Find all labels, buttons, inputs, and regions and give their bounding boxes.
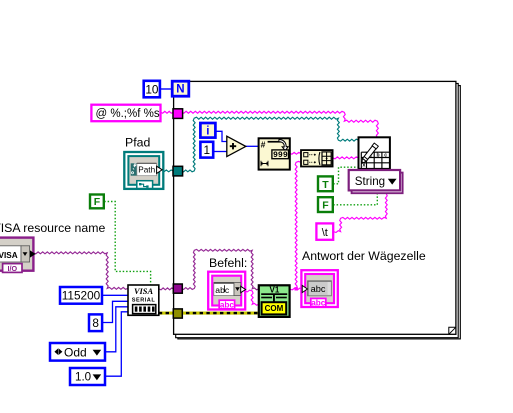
svg-text:VISA: VISA [0,251,18,260]
tunnel string format (magenta) [173,109,183,119]
subVI COM yellow box [262,302,287,314]
wire subVI response to indicator (pink) [290,288,303,290]
string constant tab box [316,223,333,239]
svg-text:Pfad: Pfad [125,135,150,149]
wire constant 1 to add [214,151,227,153]
svg-text:VISA resource name: VISA resource name [0,221,105,235]
wire Odd to config node (blue) [105,307,127,352]
svg-text:abc: abc [311,299,326,308]
write-spreadsheet node table [361,152,389,168]
write-spreadsheet node pencil [360,143,379,165]
string indicator Antwort outer frame [301,270,337,307]
wire 115200 to config node (blue) [102,294,127,296]
svg-text:Path: Path [138,166,155,175]
for-loop folded corner [449,327,456,334]
tunnel VISA resource (purple) [173,284,182,293]
path control type tag [137,181,153,189]
build-array node element row 1 [304,153,308,157]
wire format string constant to tunnel (pink) [161,111,174,113]
svg-text:i: i [206,126,209,138]
number-format node curved arrow [279,139,288,150]
VISA configure serial port node box [128,285,159,315]
ring constant Odd box [50,343,105,361]
boolean constant F outside [90,195,104,209]
svg-text:999: 999 [273,151,288,160]
wire VISA config node to loop tunnel (purple) [159,288,174,290]
for-loop border page 1 (front) [174,81,456,334]
numeric constant 115200 [60,287,102,304]
svg-text:1.0: 1.0 [75,371,91,384]
numeric constant 10 [144,81,160,98]
VISA resource control dropdown [21,246,30,262]
build-array node grid [322,152,331,165]
string constant @ %.;%f %s box [91,105,160,122]
wire build node to write node (pink) [333,157,359,159]
VISA resource control field [0,246,21,262]
path control inner frame [128,156,159,185]
svg-text:115200: 115200 [62,289,101,303]
add function plus sign [230,143,236,149]
wire VISA resource control to config node (purple) [34,252,128,289]
svg-text:8: 8 [92,316,99,330]
wire boolean F inside to write node (green dotted) [333,191,377,205]
VISA configure serial port DIP icon [133,305,156,314]
svg-text:SERIAL: SERIAL [132,298,156,304]
for-loop border page 2 [176,84,459,338]
boolean constant T [318,176,333,191]
iteration terminal i [200,123,215,138]
wire error cluster (olive dashed) [159,312,259,315]
wire add to number-format node [246,145,259,147]
string control Befehl inner frame [212,276,241,306]
path control glyph square [131,163,137,175]
string control Befehl text field [214,283,234,296]
svg-text:V1: V1 [270,285,280,294]
string control Befehl type tag [219,300,234,309]
svg-text:b: b [376,153,379,159]
wire junction response string [295,287,298,290]
svg-text:String: String [355,175,385,188]
wire 10 to N terminal [160,88,173,90]
ring constant String shadow [352,173,403,194]
wire format string inside loop (pink) [182,111,379,138]
numeric constant 1.0 dropdown [93,374,102,380]
path control text field [137,163,157,175]
svg-text:abc: abc [311,284,326,294]
VISA resource control output arrow [30,250,36,257]
subVI COM connector glyph [261,293,287,295]
numeric constant 8 [89,314,102,331]
numeric constant 1 [200,142,213,158]
ring constant String dropdown [388,179,397,185]
svg-text:N: N [176,84,184,96]
path control outer frame [124,152,163,189]
string indicator Antwort inner frame [305,274,334,303]
build-array node element row 2 [304,160,308,164]
VISA resource control outer frame [0,238,33,271]
numeric constant 1.0 box [70,368,105,385]
svg-text:abc: abc [215,285,230,295]
wire response string up to build node (pink) [295,161,301,288]
string control Befehl dropdown [234,283,241,296]
svg-text:I/O: I/O [8,264,18,273]
wire boolean F to VISA config (green dotted) [104,202,150,285]
svg-text:Antwort der Wägezelle: Antwort der Wägezelle [302,249,426,263]
tunnel path (teal) [173,166,183,176]
number-format node bar [268,141,282,143]
svg-text:T: T [322,179,329,191]
wire VISA resource inside loop (purple) [182,249,259,289]
svg-text:F: F [322,200,329,212]
build-array node bracket [319,152,320,165]
svg-text:COM: COM [265,304,284,313]
wire path control to tunnel (teal) [162,170,174,172]
svg-text:F: F [94,196,101,208]
number-format node width glyph [261,161,268,166]
wire iteration i to add [216,131,227,141]
wire boolean T to write node (green dotted) [333,167,358,184]
string control Befehl outer frame [208,272,245,310]
svg-text:Odd: Odd [64,345,87,359]
svg-text:c: c [384,153,387,159]
wire formatted number string (pink) [290,152,301,154]
wire Befehl to subVI (pink) [245,290,259,305]
wire tab constant to write node (pink) [334,194,388,233]
write-spreadsheet node box [359,137,390,169]
string control Befehl output arrow [241,286,246,292]
add function triangle [227,136,246,156]
subVI COM box [259,285,290,317]
svg-text:\t: \t [322,227,328,239]
path control output arrow [157,166,163,173]
VISA resource control I/O tag [3,264,22,273]
svg-text:Befehl:: Befehl: [209,256,247,270]
string indicator Antwort field [308,281,332,296]
ring constant Odd dropdown [93,350,102,356]
svg-text:#: # [261,139,266,149]
tunnel error cluster (olive) [173,309,182,318]
wire 8 to config node (blue) [102,301,127,322]
string indicator Antwort type tag [311,298,326,306]
for-loop count terminal N [172,81,189,96]
wire path inside loop (teal) [182,117,359,172]
svg-text:abc: abc [220,301,235,310]
number-format node box [259,138,290,169]
svg-text:1: 1 [204,143,211,157]
number-format node 999 box [272,150,289,159]
svg-text:10: 10 [145,82,159,96]
string indicator Antwort input arrow [302,285,307,292]
wire 1.0 to config node (blue) [105,312,127,376]
svg-text:@ %.;%f %s: @ %.;%f %s [96,108,160,120]
ring constant Odd glyph [54,348,62,355]
for-loop border page 3 (back) [178,86,460,339]
ring constant String box [349,170,400,190]
boolean constant F inside [318,197,333,212]
build-array node box [301,150,333,166]
svg-text:VISA: VISA [134,287,154,296]
